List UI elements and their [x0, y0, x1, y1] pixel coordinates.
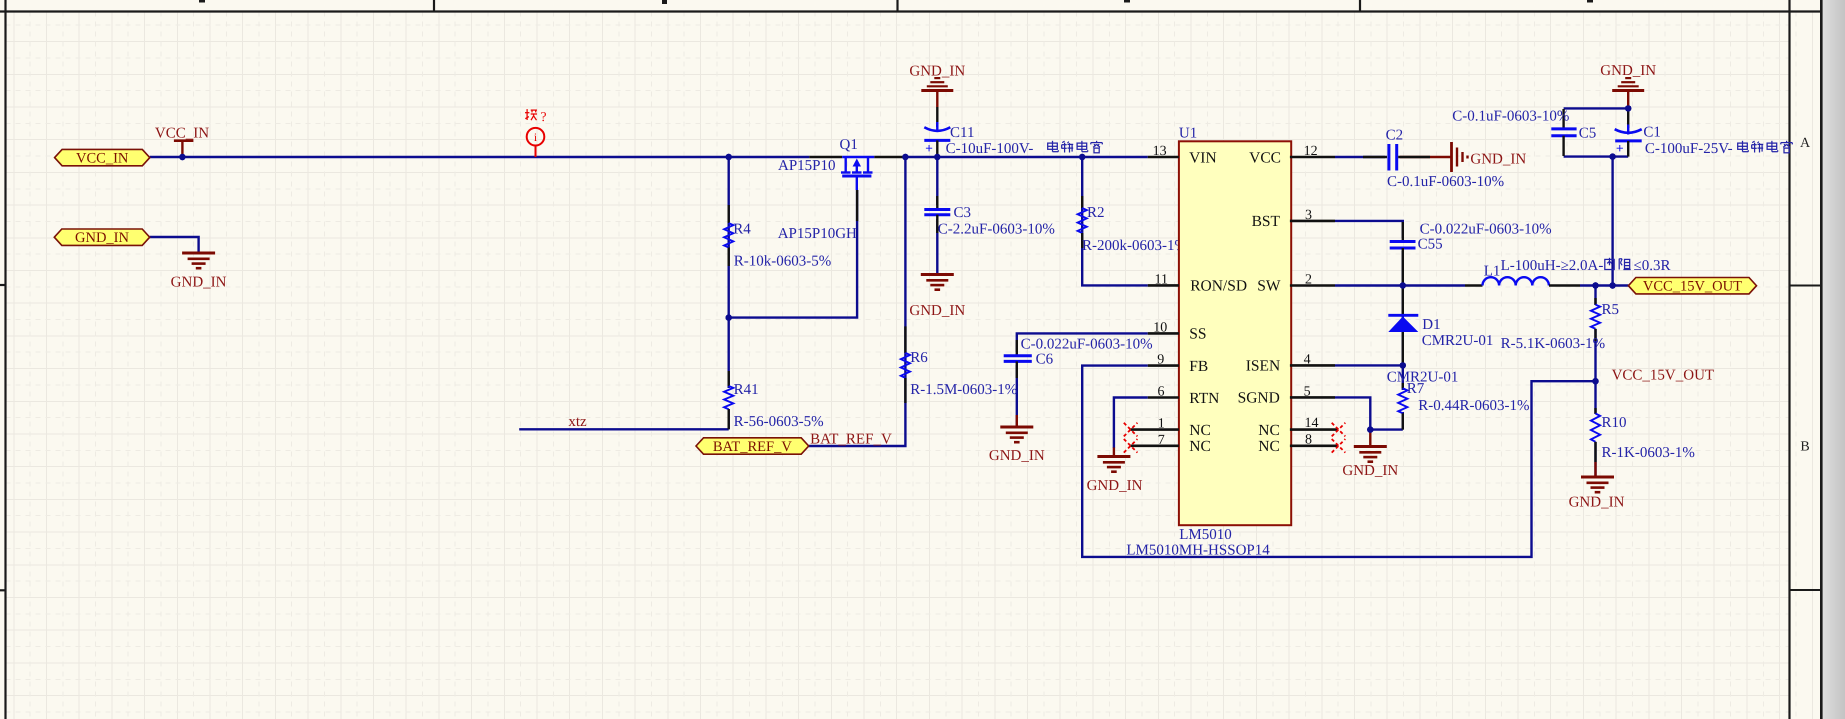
power port VCC_IN bar — [174, 139, 194, 142]
wire R5 to R10 junction — [1594, 329, 1596, 414]
op-amp U1 LM5010 body — [1179, 141, 1291, 525]
wire VCC to C2 — [1335, 156, 1385, 158]
resistor R5 — [1594, 298, 1596, 305]
svg-text:SS: SS — [1189, 326, 1206, 343]
wire L1 to VCC_15V_OUT port — [1580, 284, 1628, 286]
junction C1 top gnd — [1625, 105, 1631, 111]
border row tick left y=590 — [0, 589, 6, 591]
svg-text:GND_IN: GND_IN — [909, 63, 965, 79]
svg-text:R4: R4 — [733, 222, 751, 238]
svg-text:xtz: xtz — [568, 414, 587, 430]
wire R41 bottom junction — [728, 409, 730, 429]
wire GND_IN port to ground — [150, 237, 199, 253]
wire Q1 gate loop — [729, 190, 857, 318]
svg-text:NC: NC — [1258, 422, 1280, 439]
wire C11 C3 vertical — [936, 157, 938, 205]
port VCC_15V_OUT — [1628, 278, 1756, 294]
inductor L1 — [1465, 284, 1483, 286]
svg-text:5: 5 — [1304, 384, 1311, 399]
pin 7 NC — [1131, 444, 1179, 447]
svg-text:B: B — [1800, 440, 1809, 455]
border row tick left y=285 — [0, 284, 6, 286]
svg-text:D1: D1 — [1422, 317, 1440, 333]
junction C11 C3 — [934, 154, 940, 160]
svg-text:NC: NC — [1189, 438, 1211, 455]
capacitor C1 polarized — [1627, 110, 1629, 128]
svg-text:ISEN: ISEN — [1246, 358, 1280, 375]
ground GND_IN below R10 — [1581, 476, 1614, 479]
border row tick right y=285 — [1790, 285, 1822, 287]
svg-text:SW: SW — [1257, 278, 1281, 295]
pin 8 NC — [1290, 444, 1339, 447]
pin 5 SGND — [1290, 396, 1335, 399]
svg-text:GND_IN: GND_IN — [989, 448, 1045, 464]
no-ERC marker pin 14 — [1332, 423, 1346, 437]
svg-text:VIN: VIN — [1189, 149, 1217, 166]
svg-text:R6: R6 — [910, 350, 928, 366]
capacitor C55 — [1402, 222, 1404, 242]
svg-text:+: + — [1616, 141, 1624, 156]
power GND_IN above C1 C5 — [1625, 77, 1631, 79]
wire R10 bottom to ground — [1594, 442, 1596, 477]
svg-text:SGND: SGND — [1238, 390, 1280, 407]
no-ERC marker pin 7 — [1124, 439, 1138, 453]
ground GND_IN right of U1 — [1354, 445, 1387, 448]
svg-text:VCC_15V_OUT: VCC_15V_OUT — [1612, 368, 1715, 384]
wire R5 top — [1594, 286, 1596, 306]
svg-text:VCC: VCC — [1249, 149, 1281, 166]
svg-text:C-10uF-100V-: C-10uF-100V- — [946, 141, 1034, 157]
svg-text:AP15P10: AP15P10 — [778, 158, 836, 174]
no-ERC marker pin 1 — [1124, 423, 1138, 437]
svg-text:C-100uF-25V-: C-100uF-25V- — [1645, 141, 1733, 157]
resistor R6 — [904, 326, 906, 353]
svg-text:L1: L1 — [1484, 264, 1501, 280]
svg-text:9: 9 — [1157, 353, 1164, 368]
svg-text:R-56-0603-5%: R-56-0603-5% — [734, 414, 824, 430]
svg-text:C-0.022uF-0603-10%: C-0.022uF-0603-10% — [1021, 337, 1153, 353]
junction dots top layer — [179, 154, 185, 160]
border column tick x=897 — [896, 0, 898, 12]
svg-text:10: 10 — [1153, 320, 1167, 335]
junction C1 bottom rail — [1609, 153, 1615, 159]
svg-text:NC: NC — [1258, 438, 1280, 455]
junction R5 R10 FB — [1592, 378, 1598, 384]
wire R7 bottom — [1402, 412, 1404, 430]
wire C6 to ground — [1016, 365, 1018, 427]
port BAT_REF_V — [696, 438, 809, 454]
svg-text:8: 8 — [1305, 433, 1312, 448]
wire R2 branch vertical — [1082, 157, 1148, 285]
svg-text:VCC_15V_OUT: VCC_15V_OUT — [1643, 279, 1742, 295]
pin 4 ISEN — [1290, 364, 1335, 367]
wire BST to C55 — [1335, 221, 1403, 238]
svg-text:VCC_IN: VCC_IN — [76, 151, 129, 167]
svg-text:≤0.3R: ≤0.3R — [1634, 258, 1671, 274]
svg-text:i: i — [534, 132, 537, 144]
svg-text:R-1.5M-0603-1%: R-1.5M-0603-1% — [910, 382, 1017, 398]
junction R4 top — [726, 154, 732, 160]
wire R4 to R41 vertical — [728, 157, 730, 388]
svg-text:C6: C6 — [1036, 352, 1054, 368]
capacitor C11 polarized — [936, 107, 938, 127]
svg-text:R-5.1K-0603-1%: R-5.1K-0603-1% — [1501, 336, 1606, 352]
partial column number glyphs at top edge — [199, 0, 1593, 4]
power GND_IN above C11 — [934, 77, 940, 79]
svg-text:C3: C3 — [954, 205, 972, 221]
wire output rail down to R5 — [1611, 157, 1613, 286]
svg-text:L-100uH-≥2.0A-: L-100uH-≥2.0A- — [1501, 258, 1604, 274]
pin 1 NC — [1131, 428, 1179, 431]
svg-text:12: 12 — [1304, 144, 1318, 159]
svg-text:BAT_REF_V: BAT_REF_V — [810, 432, 892, 448]
ground GND_IN below RTN — [1097, 455, 1130, 458]
svg-text:R-0.44R-0603-1%: R-0.44R-0603-1% — [1418, 398, 1529, 414]
junction R2 top — [1079, 154, 1085, 160]
wire Q1 right to C11/R2 segment — [905, 156, 1148, 158]
svg-text:BAT_REF_V: BAT_REF_V — [713, 439, 792, 455]
svg-text:R5: R5 — [1602, 302, 1620, 318]
capacitor C2 — [1363, 156, 1387, 158]
ground GND_IN left — [182, 252, 215, 255]
svg-text:GND_IN: GND_IN — [1470, 152, 1526, 168]
svg-text:R-10k-0603-5%: R-10k-0603-5% — [734, 254, 832, 270]
svg-text:C55: C55 — [1418, 237, 1443, 253]
pin 13 VIN — [1148, 156, 1179, 159]
svg-text:R2: R2 — [1087, 205, 1105, 221]
junction SW C55 D1 — [1400, 282, 1406, 288]
svg-text:GND_IN: GND_IN — [171, 275, 227, 291]
wire SW to L1 — [1335, 284, 1465, 286]
svg-text:11: 11 — [1155, 272, 1168, 287]
svg-text:GND_IN: GND_IN — [75, 230, 129, 246]
junction VCC_IN power — [179, 154, 185, 160]
svg-text:RTN: RTN — [1189, 390, 1219, 407]
resistor R2 — [1081, 196, 1083, 208]
svg-text:BST: BST — [1252, 213, 1281, 230]
wire ISEN junction — [1335, 364, 1403, 366]
svg-text:LM5010MH-HSSOP14: LM5010MH-HSSOP14 — [1126, 543, 1270, 559]
svg-text:NC: NC — [1189, 422, 1211, 439]
pin 2 SW — [1290, 284, 1335, 287]
svg-text:VCC_IN: VCC_IN — [155, 126, 209, 142]
border column tick x=434 — [433, 0, 435, 12]
svg-text:R-200k-0603-1%: R-200k-0603-1% — [1082, 238, 1187, 254]
svg-text:FB: FB — [1189, 358, 1208, 375]
svg-text:C1: C1 — [1643, 125, 1661, 141]
transistor Q1 AP15P10 — [809, 156, 842, 158]
sheet border frame — [4, 0, 6, 719]
svg-text:R-1K-0603-1%: R-1K-0603-1% — [1602, 445, 1695, 461]
svg-text:13: 13 — [1153, 144, 1167, 159]
diode D1 CMR2U-01 — [1402, 286, 1404, 316]
pin 10 SS — [1148, 332, 1179, 335]
svg-text:4: 4 — [1304, 352, 1311, 367]
wire C3 to ground — [936, 219, 938, 274]
svg-text:RON/SD: RON/SD — [1190, 278, 1247, 295]
svg-text:GND_IN: GND_IN — [1087, 478, 1143, 494]
svg-text:1: 1 — [1158, 417, 1165, 432]
svg-text:GND_IN: GND_IN — [1569, 495, 1625, 511]
svg-text:7: 7 — [1158, 433, 1165, 448]
wire C55 D1 R7 vertical — [1402, 251, 1404, 390]
ground GND_IN below C3 — [921, 273, 954, 276]
pin 12 VCC — [1290, 156, 1335, 159]
wire C5 C1 bottom link — [1564, 155, 1629, 157]
power bar GND_IN right of C2 (rotated ground) — [1450, 142, 1453, 172]
wire C2 to GND bar — [1400, 156, 1452, 158]
wire BAT_REF_V to R6 — [809, 157, 906, 446]
ground GND_IN below C6 — [1000, 426, 1033, 429]
svg-text:GND_IN: GND_IN — [1342, 463, 1398, 479]
wire SS to C6 — [1017, 333, 1148, 352]
pin names U1 — [1189, 149, 1281, 455]
pin 6 RTN — [1148, 396, 1179, 399]
pin 11 RON/SD — [1148, 284, 1179, 287]
pin 9 FB — [1148, 364, 1179, 367]
resistor R4 — [728, 205, 730, 223]
svg-text:R41: R41 — [734, 382, 759, 398]
svg-text:14: 14 — [1305, 416, 1319, 431]
svg-text:6: 6 — [1158, 384, 1165, 399]
svg-text:CMR2U-01: CMR2U-01 — [1422, 333, 1494, 349]
svg-text:C-0.1uF-0603-10%: C-0.1uF-0603-10% — [1452, 109, 1569, 125]
wire main VCC_IN horizontal net — [150, 156, 810, 158]
resistor R41 — [728, 371, 730, 386]
junction R6 top — [902, 154, 908, 160]
svg-text:GND_IN: GND_IN — [909, 303, 965, 319]
svg-text:LM5010: LM5010 — [1179, 527, 1232, 543]
wire SGND to ground — [1335, 397, 1403, 429]
wire C5 C1 top link — [1564, 107, 1629, 109]
capacitor C3 — [936, 196, 938, 210]
capacitor C5 — [1562, 109, 1564, 129]
junction ISEN D1 R7 — [1400, 362, 1406, 368]
svg-text:R10: R10 — [1602, 415, 1627, 431]
svg-text:2: 2 — [1305, 272, 1312, 287]
probe marker red circle — [527, 128, 545, 157]
svg-text:Q1: Q1 — [840, 137, 858, 153]
wire FB feedback loop — [1082, 366, 1595, 557]
svg-text:A: A — [1800, 136, 1811, 151]
svg-text:CMR2U-01: CMR2U-01 — [1387, 370, 1459, 386]
junction rail at port — [1609, 282, 1615, 288]
svg-text:C2: C2 — [1386, 128, 1404, 144]
port VCC_IN — [55, 149, 150, 165]
no-ERC marker pin 8 — [1332, 439, 1346, 453]
capacitor C6 — [1016, 340, 1018, 356]
svg-text:?: ? — [541, 109, 547, 124]
svg-text:C11: C11 — [950, 125, 974, 141]
port GND_IN — [54, 229, 149, 245]
svg-text:3: 3 — [1305, 208, 1312, 223]
pin 3 BST — [1290, 220, 1335, 223]
junction SGND R7 ground — [1367, 426, 1373, 432]
pin 14 NC — [1290, 428, 1339, 431]
border column tick x=1360 — [1359, 0, 1361, 12]
wire RTN to ground — [1114, 398, 1148, 449]
sheet margin gray area — [1823, 0, 1845, 719]
svg-text:C-0.022uF-0603-10%: C-0.022uF-0603-10% — [1420, 222, 1552, 238]
wire xtz horizontal — [519, 428, 729, 430]
svg-text:GND_IN: GND_IN — [1600, 63, 1656, 79]
junction R4 R41 gate — [726, 314, 732, 320]
border row tick right y=590 — [1790, 589, 1822, 591]
junction L1 R5 — [1592, 282, 1598, 288]
svg-text:U1: U1 — [1179, 126, 1197, 142]
svg-text:C-0.1uF-0603-10%: C-0.1uF-0603-10% — [1387, 174, 1504, 190]
resistor R7 — [1402, 383, 1404, 388]
svg-text:C-2.2uF-0603-10%: C-2.2uF-0603-10% — [938, 222, 1055, 238]
svg-text:C5: C5 — [1579, 126, 1597, 142]
svg-text:+: + — [925, 141, 933, 156]
svg-text:AP15P10GH: AP15P10GH — [778, 226, 857, 242]
wire ground stem right of U1 — [1369, 430, 1371, 447]
resistor R10 — [1594, 408, 1596, 414]
